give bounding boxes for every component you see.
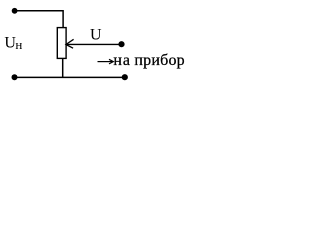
wire bottom lead — [62, 58, 64, 77]
svg-text:U: U — [90, 27, 102, 44]
wire top vertical lead — [62, 10, 64, 28]
wiper arrowhead — [66, 39, 74, 48]
wire top horizontal — [15, 10, 64, 12]
node B (input bottom terminal) — [12, 74, 18, 80]
svg-text:на: на — [113, 52, 130, 69]
potentiometer R1 body — [57, 28, 66, 59]
node D (output bottom terminal) — [122, 74, 128, 80]
wire bottom horizontal — [15, 76, 126, 78]
arrow to device — [98, 61, 113, 63]
node A (input top terminal) — [12, 8, 18, 14]
node C (wiper output terminal) — [118, 41, 124, 47]
svg-text:Uн: Uн — [4, 35, 22, 52]
svg-text:прибор: прибор — [134, 52, 184, 69]
wire wiper horizontal — [67, 43, 122, 45]
